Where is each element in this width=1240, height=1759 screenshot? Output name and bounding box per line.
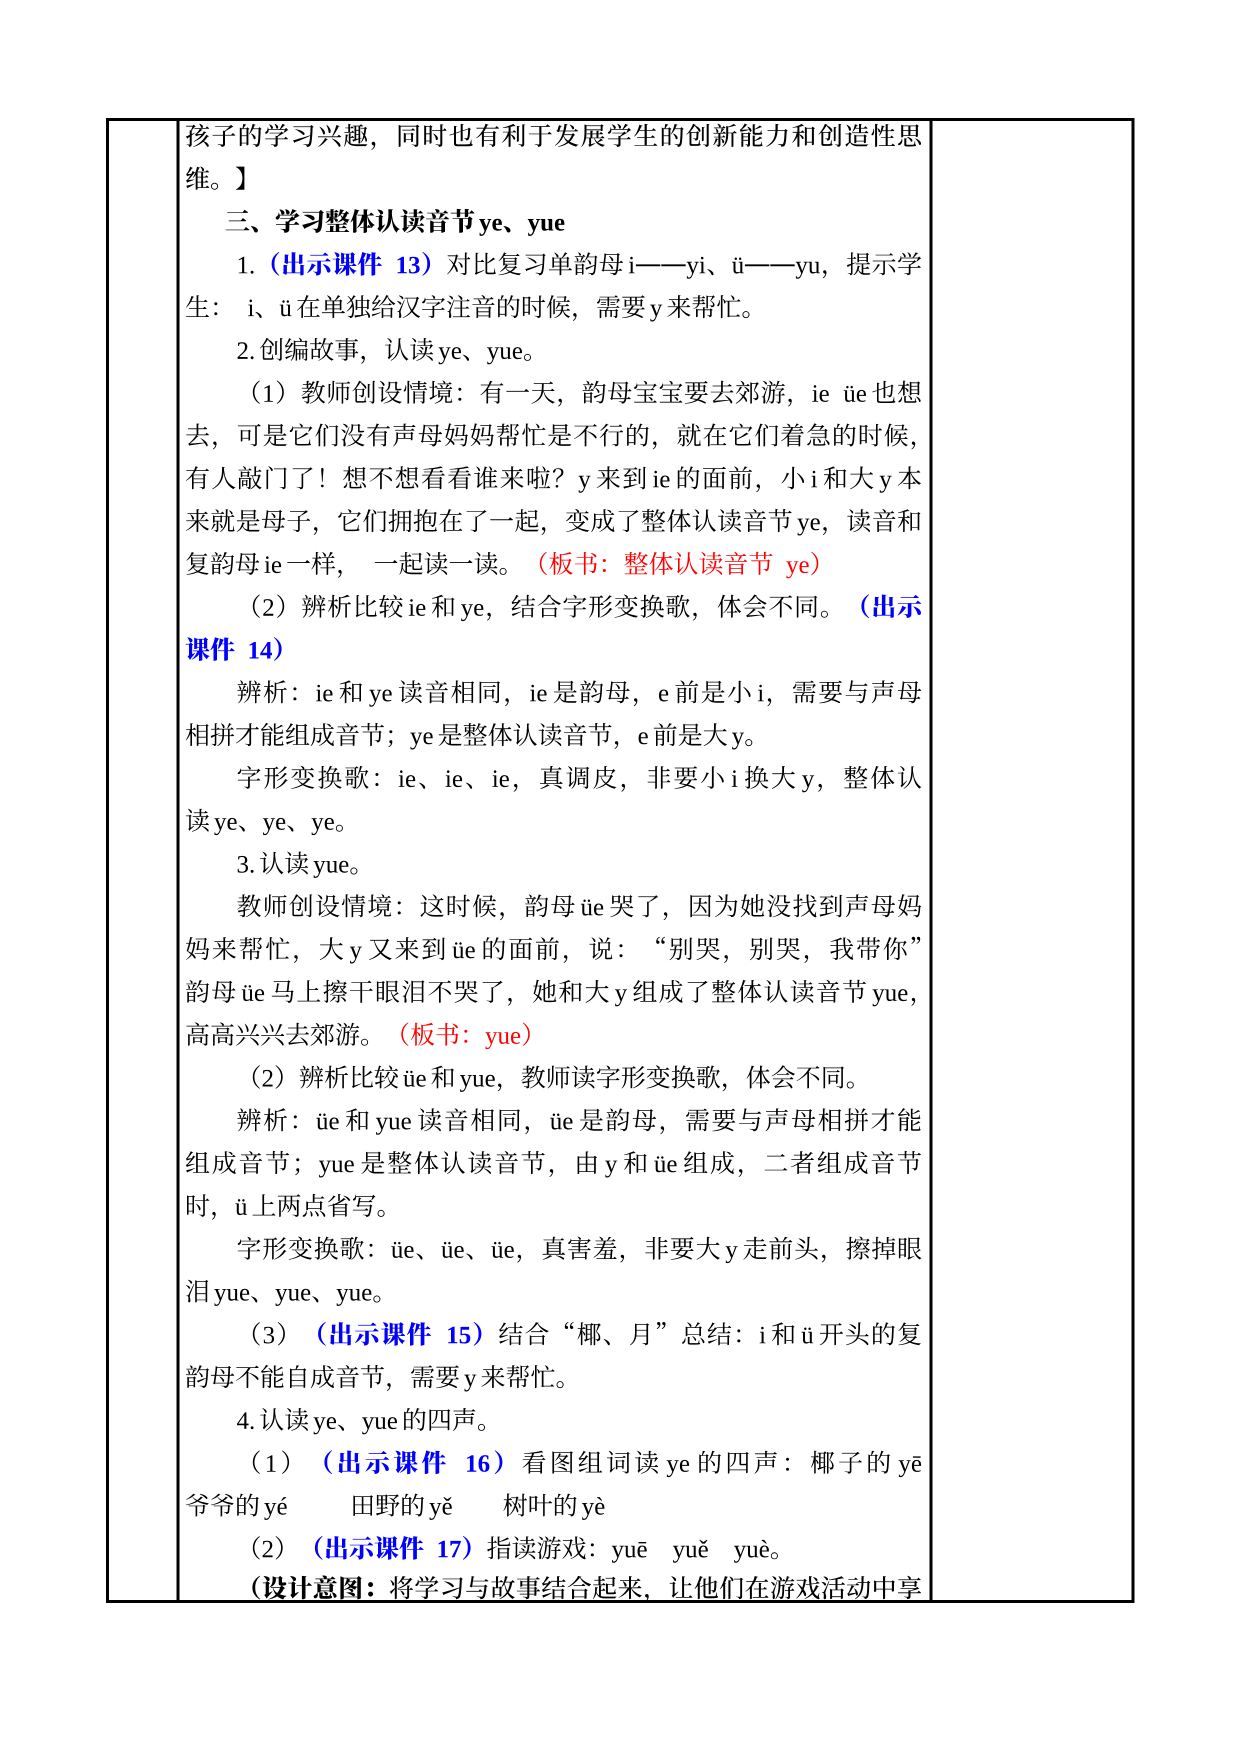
table borders [106,118,1135,1603]
